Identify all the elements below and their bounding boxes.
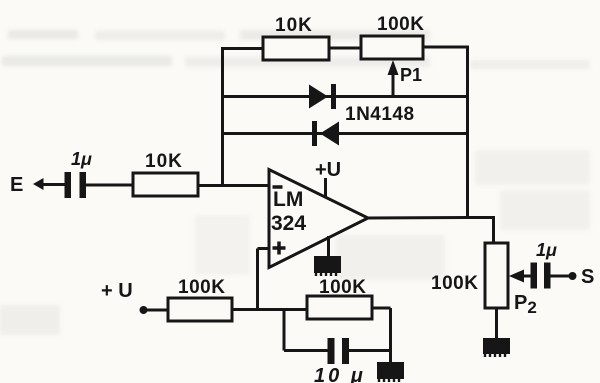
wire: +U to R3 — [146, 309, 168, 312]
wire: R4 right to ground vertical — [372, 307, 391, 310]
wire: negative supply pin to ground — [327, 236, 330, 257]
svg-text:E: E — [10, 174, 23, 196]
svg-text:100K: 100K — [178, 277, 225, 298]
input terminal arrow — [33, 178, 44, 190]
capacitor C1 1u (input) — [65, 172, 87, 198]
ground (op-amp) — [314, 256, 341, 276]
diode D2 1N4148 (anode right) — [315, 121, 340, 146]
svg-text:1μ: 1μ — [71, 149, 92, 169]
wire: 100K to right feedback vertical — [423, 46, 468, 49]
wiper arrow P2 — [509, 270, 531, 283]
svg-text:P1: P1 — [400, 65, 422, 85]
resistor R3 100K (bias) — [168, 298, 232, 321]
plus sign (non-inverting input) — [273, 242, 286, 255]
wire: C2 branch horizontal — [284, 349, 328, 352]
potentiometer wiper P1 arrow — [388, 60, 399, 95]
terminal +U dot — [140, 306, 148, 314]
wire: bias node down to C2 branch — [283, 310, 286, 351]
wire: ground vertical — [389, 308, 392, 363]
wire: between 10K and 100K — [329, 47, 361, 50]
svg-text:100K: 100K — [319, 277, 366, 298]
wire: diode D2 branch — [223, 132, 468, 135]
svg-text:+ U: + U — [101, 280, 133, 302]
svg-text:10K: 10K — [145, 151, 183, 172]
svg-text:324: 324 — [271, 212, 306, 235]
svg-text:S: S — [581, 266, 594, 288]
wire: P2 bottom to ground — [495, 308, 498, 339]
wire: vertical from + input down to bias node — [256, 249, 259, 310]
wire: R3 to bias node and on to R4 — [232, 308, 307, 311]
resistor 10K (feedback) — [263, 37, 329, 60]
svg-text:100K: 100K — [431, 273, 478, 294]
ground (bias network) — [377, 362, 404, 382]
wire: +U supply pin — [324, 178, 327, 198]
wire: C3 to S terminal — [550, 275, 570, 278]
capacitor C2 10u — [328, 338, 350, 364]
svg-text:1μ: 1μ — [536, 240, 557, 260]
svg-text:100K: 100K — [377, 14, 424, 35]
capacitor C3 1u (output) — [531, 263, 551, 289]
svg-text:1N4148: 1N4148 — [345, 104, 415, 125]
resistor R4 100K (bias to ground) — [307, 296, 372, 319]
wire: R1 to inverting input — [198, 184, 269, 187]
svg-text:LM: LM — [273, 188, 303, 211]
wire: C2 to ground vertical — [349, 349, 391, 352]
wire: right feedback vertical down to output node — [466, 47, 469, 217]
wire: E to C1 — [42, 183, 65, 186]
wire: top feedback to 10K — [223, 47, 264, 50]
svg-text:10K: 10K — [275, 15, 313, 36]
terminal S dot — [569, 272, 577, 280]
op-amp U1 LM324 triangle — [269, 170, 368, 268]
svg-text:10 μ: 10 μ — [314, 365, 366, 383]
wire: non-inverting input lead — [258, 247, 270, 250]
resistor 100K (feedback, P1 body) — [361, 36, 423, 59]
potentiometer P2 body 100K — [485, 243, 508, 308]
diode D1 1N4148 (anode left) — [309, 84, 334, 109]
ground (P2) — [483, 338, 510, 357]
wire: left feedback vertical from inverting node up — [221, 49, 224, 186]
minus sign (inverting input) — [273, 185, 283, 189]
svg-text:+U: +U — [315, 159, 341, 181]
wire: C1 to R1 — [86, 184, 133, 187]
wire: diode D1 branch — [223, 95, 468, 98]
resistor R1 10K (input) — [133, 173, 198, 196]
wire: op-amp output — [368, 218, 494, 244]
